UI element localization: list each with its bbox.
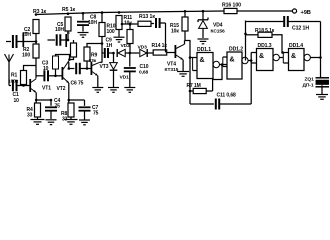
svg-text:10Н: 10Н	[55, 27, 64, 33]
ground below C10	[124, 87, 135, 89]
node C1 R1 junction	[22, 84, 25, 87]
capacitor C (R13 coupling)	[155, 18, 157, 28]
wire DD1.1 input strap	[190, 57, 193, 59]
svg-text:R3 1к: R3 1к	[33, 9, 47, 15]
resistor R5	[65, 17, 71, 31]
svg-text:КТ315: КТ315	[165, 67, 179, 73]
wire VT2 emitter down	[68, 83, 70, 103]
node VT1 emitter junction	[35, 99, 38, 102]
piezo sounder ZQ1	[316, 77, 330, 79]
wire DD1.4 output	[310, 57, 320, 59]
svg-text:C10: C10	[140, 64, 149, 70]
inverter bubble DD1.3	[273, 54, 279, 60]
node R9 top corner	[101, 42, 104, 45]
capacitor C7	[84, 100, 86, 106]
resistor R14	[153, 50, 167, 55]
ground below C7	[79, 119, 90, 121]
ground below R8	[70, 117, 72, 119]
svg-text:10Н: 10Н	[88, 20, 97, 26]
wire DD1.1 output	[220, 64, 228, 66]
svg-text:R13 1к: R13 1к	[139, 14, 155, 20]
transistor VT1	[29, 79, 31, 92]
capacitor C4	[50, 100, 52, 106]
zener diode VD4	[202, 11, 204, 20]
wire +9V top rail	[36, 11, 224, 15]
svg-text:10: 10	[14, 98, 20, 104]
transistor VT3	[90, 62, 92, 75]
node R9 base junction	[86, 67, 89, 70]
wire R1 bottom to base	[23, 85, 25, 86]
resistor R4	[35, 103, 41, 117]
capacitor C3	[36, 75, 43, 77]
svg-text:&: &	[291, 53, 296, 60]
node VD4 rail junction	[202, 10, 205, 13]
svg-text:&: &	[200, 57, 205, 64]
svg-text:&: &	[230, 57, 235, 64]
node R10 rail junction	[101, 11, 104, 14]
svg-text:33к: 33к	[89, 58, 97, 64]
svg-text:C12 1Н: C12 1Н	[292, 26, 309, 32]
wire R2 to VT1 collector	[35, 58, 37, 79]
resistor R11	[116, 16, 122, 30]
svg-text:C6 75: C6 75	[71, 81, 84, 87]
svg-text:VD4: VD4	[213, 23, 223, 29]
inverter bubble DD1.2	[242, 57, 248, 63]
wire top rail right of R16	[237, 10, 292, 12]
svg-text:C11 0,68: C11 0,68	[217, 93, 237, 99]
node VT2 collector C6 junction	[68, 67, 71, 70]
svg-text:33: 33	[27, 112, 33, 118]
ground below R11	[114, 36, 125, 38]
wire R6 bottom to VT2 collector	[70, 57, 74, 60]
ground below VD4	[198, 38, 209, 40]
svg-text:VT2: VT2	[57, 86, 66, 92]
svg-text:VD1: VD1	[120, 75, 130, 81]
capacitor C9	[102, 52, 104, 54]
wire R15 to VT4 collector	[184, 31, 186, 41]
svg-text:1Н: 1Н	[106, 43, 113, 49]
svg-text:10: 10	[43, 66, 49, 72]
resistor R15	[184, 10, 187, 13]
node B C5 junction	[67, 39, 70, 42]
ground below ZQ1	[316, 94, 328, 96]
capacitor C12	[283, 16, 285, 27]
svg-text:&: &	[259, 53, 264, 60]
node A C2 junction	[35, 40, 38, 43]
transistor VT4	[174, 45, 176, 58]
svg-text:R9: R9	[91, 53, 98, 59]
inverter bubble DD1.1	[213, 61, 219, 67]
wire R13 to cap	[151, 23, 154, 25]
svg-text:DD1.4: DD1.4	[289, 43, 303, 49]
capacitor C8 decoupling	[82, 13, 84, 20]
wire R12 bottom to node	[129, 44, 131, 54]
capacitor C10	[129, 53, 131, 67]
wire DD1.3 input strap	[251, 52, 256, 54]
resistor R7	[189, 90, 192, 93]
terminal +9V	[292, 9, 296, 13]
svg-text:100: 100	[107, 29, 115, 35]
node R18 left junction	[244, 33, 247, 36]
node VD1 junction	[112, 52, 115, 55]
wire cap down to R14 output node	[165, 23, 167, 53]
resistor R13	[138, 21, 151, 26]
svg-text:R5 1к: R5 1к	[62, 7, 76, 13]
wire emitter to C7	[69, 99, 85, 101]
wire DD1.4 output down to ZQ1	[320, 58, 322, 78]
logic gate DD1.3	[257, 49, 274, 71]
wire VT4 emitter to ground	[182, 60, 184, 71]
diode VD3	[140, 49, 147, 56]
svg-text:DD1.3: DD1.3	[258, 43, 272, 49]
wire emitter to C4	[36, 99, 51, 101]
svg-text:КС156: КС156	[211, 29, 225, 35]
wire ZQ1 to ground	[321, 87, 323, 94]
resistor R9	[84, 47, 90, 61]
ground below C4	[46, 119, 57, 121]
node R12 junction	[129, 52, 132, 55]
wire R11 node to R13	[122, 23, 138, 25]
svg-text:VD3: VD3	[138, 45, 148, 51]
wire R9 top corner	[87, 44, 102, 48]
wire VT4 collector	[184, 41, 186, 45]
resistor R2	[33, 44, 39, 58]
resistor R12	[129, 24, 131, 30]
wire R6 bias bottom	[55, 69, 57, 76]
wire DD1.3 input column	[245, 34, 247, 61]
svg-text:VT3: VT3	[100, 64, 109, 70]
wire R11 to ground	[118, 30, 120, 37]
resistor R18	[246, 34, 259, 36]
svg-text:ZQ1: ZQ1	[305, 77, 315, 83]
wire R1 top to collector column	[24, 66, 37, 71]
wire C11 row	[190, 103, 214, 105]
node R11 rail junction	[118, 11, 121, 14]
capacitor C5	[48, 39, 56, 41]
capacitor C11	[215, 99, 217, 110]
ground below VT3	[92, 87, 103, 89]
svg-text:10к: 10к	[171, 28, 179, 34]
node VT2 emitter junction	[68, 99, 71, 102]
svg-text:75: 75	[93, 110, 99, 116]
wire VT3 collector corner	[100, 61, 102, 63]
svg-text:10к: 10к	[124, 20, 132, 26]
resistor R10	[101, 13, 103, 23]
svg-text:VT4: VT4	[167, 62, 176, 68]
logic gate DD1.1	[197, 53, 213, 79]
wire C12 feedback top	[245, 21, 247, 34]
capacitor C1	[9, 85, 11, 87]
wire DD1.4 input strap	[282, 53, 284, 64]
resistor R1	[21, 71, 27, 85]
resistor R6	[73, 40, 75, 43]
logic gate DD1.2	[227, 52, 242, 79]
svg-text:+9В: +9В	[301, 10, 311, 16]
svg-text:0,68: 0,68	[139, 70, 148, 76]
wire VT1 emitter down	[35, 92, 37, 103]
svg-text:DD1.1: DD1.1	[197, 47, 211, 53]
resistor R16	[224, 8, 237, 13]
resistor R8	[68, 103, 74, 117]
wire R18 right to DD1.4 input	[272, 35, 282, 53]
node C8 rail junction	[82, 12, 85, 15]
node DD1.1 output junction	[221, 63, 224, 66]
capacitor C6	[69, 68, 75, 70]
node R5 top junction	[67, 12, 70, 15]
wire C12 right down to DD1.4 output	[320, 22, 322, 58]
logic gate DD1.4	[289, 49, 305, 71]
svg-text:R14 1к: R14 1к	[152, 43, 168, 49]
wire VT3 emitter down	[97, 76, 99, 87]
logic gate DD1.2 input strap	[221, 64, 224, 66]
svg-text:ДП-1: ДП-1	[303, 83, 314, 89]
wire R5 to node B	[67, 31, 69, 40]
ground below R4	[37, 117, 39, 119]
wire C11 up to DD1.3 input strap	[250, 53, 252, 105]
wire DD1.1 output down to R7	[213, 65, 222, 92]
wire R3 to node A	[35, 34, 37, 45]
svg-text:DD1.2: DD1.2	[229, 47, 243, 53]
antenna WA1	[5, 54, 10, 62]
svg-text:100к: 100к	[8, 78, 19, 84]
svg-text:R16 100: R16 100	[222, 3, 241, 9]
diode VD2	[116, 49, 118, 57]
node DD1.4 output junction	[319, 56, 322, 59]
wire R10 to VT3 collector rail	[101, 37, 103, 63]
wire DD1.2 output to DD1.3 strap	[248, 60, 251, 62]
resistor R3	[33, 20, 39, 34]
ground below C8	[78, 32, 89, 34]
svg-text:100: 100	[22, 53, 30, 59]
wire DD1.3 output	[279, 57, 283, 59]
wire VT4 collector to DD1.1 inputs	[185, 41, 191, 105]
svg-text:VT1: VT1	[42, 86, 51, 92]
svg-text:R1: R1	[11, 73, 18, 79]
svg-text:R7 1М: R7 1М	[187, 83, 201, 89]
diode VD1	[113, 53, 115, 62]
ground below VD1	[108, 87, 119, 89]
junction bar at C5 output	[65, 34, 67, 47]
node DD1.4 input junction	[281, 51, 284, 54]
wire R14 to VT4 base	[167, 52, 176, 54]
resistor R6 bias	[53, 56, 59, 69]
wire R9 bottom to base	[86, 61, 88, 69]
svg-text:75: 75	[55, 103, 61, 109]
junction bar at C2 output	[22, 33, 24, 47]
inverter bubble DD1.4	[304, 54, 310, 60]
transistor VT2	[61, 67, 63, 80]
wire antenna mast	[8, 62, 10, 86]
capacitor C2	[6, 41, 11, 43]
node R3 top junction	[35, 13, 38, 16]
svg-text:R18 5,1к: R18 5,1к	[255, 28, 275, 34]
